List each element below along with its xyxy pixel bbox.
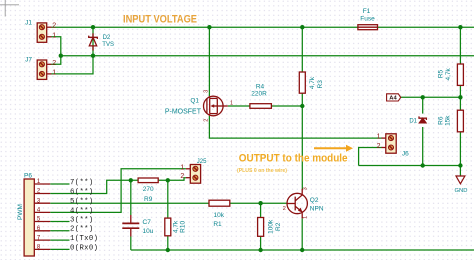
wire R4 to R3 bottom node [271, 105, 302, 107]
wire J7.1 [52, 56, 94, 74]
resistor R4 [250, 84, 272, 109]
wire D2 column [92, 27, 94, 56]
wire D1 column [422, 97, 424, 113]
resistor R10 [165, 218, 187, 236]
svg-text:D2: D2 [103, 35, 111, 41]
wire Q2 emitter [301, 218, 303, 250]
wire P6.1 stub [50, 183, 69, 185]
ground GND [455, 176, 468, 194]
svg-text:F1: F1 [363, 8, 371, 15]
svg-text:270: 270 [143, 186, 154, 193]
svg-text:GND: GND [455, 188, 468, 194]
svg-text:2: 2 [52, 60, 56, 67]
connector J6 [377, 134, 409, 158]
svg-text:R5: R5 [438, 69, 445, 78]
wire R3 column [301, 27, 303, 72]
wire P6.7 stub [50, 239, 69, 241]
resistor R9 [138, 178, 158, 203]
svg-text:1: 1 [302, 216, 308, 219]
wire A4 row [401, 96, 461, 98]
svg-text:J7: J7 [25, 57, 32, 64]
svg-text:10k: 10k [214, 212, 225, 219]
wire C7 column [130, 180, 132, 215]
wire P6.5 stub [50, 221, 69, 223]
svg-text:0(Rx0): 0(Rx0) [70, 244, 98, 252]
svg-text:(PLUS 0 on the wire): (PLUS 0 on the wire) [237, 168, 287, 174]
svg-text:R10: R10 [180, 221, 187, 233]
svg-text:220R: 220R [251, 91, 267, 98]
svg-text:3: 3 [302, 187, 308, 190]
diode D2 TVS [89, 33, 114, 50]
svg-text:R2: R2 [275, 222, 282, 231]
resistor R3 [299, 72, 324, 93]
svg-text:2: 2 [52, 23, 56, 30]
wire R6 bottom [459, 132, 461, 166]
wire P6.3 to R1 [50, 202, 209, 204]
svg-text:P-MOSFET: P-MOSFET [165, 108, 202, 115]
svg-text:J1: J1 [25, 19, 32, 26]
svg-text:1: 1 [180, 164, 184, 171]
svg-text:2: 2 [283, 206, 286, 212]
wire GND bottom rail [131, 249, 474, 251]
svg-text:4,7k: 4,7k [309, 76, 316, 89]
svg-text:10u: 10u [143, 228, 154, 235]
svg-text:J25: J25 [197, 159, 207, 165]
svg-text:2: 2 [377, 143, 381, 150]
svg-text:3: 3 [204, 90, 210, 93]
mosfet Q1 P-MOSFET [165, 90, 233, 122]
svg-text:PWM: PWM [17, 204, 24, 220]
svg-text:J6: J6 [402, 150, 409, 157]
svg-text:P6: P6 [24, 172, 32, 179]
svg-text:C7: C7 [143, 219, 152, 226]
svg-text:3(**): 3(**) [70, 216, 94, 224]
svg-text:R9: R9 [144, 196, 153, 203]
wire R3 bottom to Q2 collector [301, 93, 303, 189]
svg-text:1: 1 [377, 134, 381, 141]
svg-text:2: 2 [204, 119, 210, 122]
svg-text:OUTPUT to the module: OUTPUT to the module [239, 152, 348, 164]
svg-text:1(Tx0): 1(Tx0) [70, 235, 98, 243]
svg-text:INPUT VOLTAGE: INPUT VOLTAGE [123, 14, 197, 26]
connector J25 [180, 159, 207, 183]
connector J1 [25, 19, 56, 42]
arrow orange [314, 145, 353, 152]
svg-text:15k: 15k [444, 115, 451, 126]
wire VIN+ top rail [52, 26, 474, 28]
capacitor C7 [122, 215, 153, 237]
svg-text:NPN: NPN [310, 206, 324, 213]
wire VIN- second rail [61, 55, 474, 57]
svg-text:4,7k: 4,7k [445, 68, 452, 81]
wire J6.2 to GND row [359, 148, 382, 166]
wire R10 column [167, 180, 169, 218]
svg-text:Q1: Q1 [190, 98, 199, 105]
wire J1.1 / J7.2 column [52, 37, 61, 65]
resistor R5 [438, 64, 464, 85]
connector P6 [17, 172, 50, 256]
diode D1 zener [409, 116, 426, 124]
svg-text:Q2: Q2 [310, 197, 319, 204]
wire P6.2 to R9/C7 node [50, 180, 138, 193]
wire Q1 source column [208, 27, 210, 96]
svg-text:R4: R4 [256, 84, 265, 91]
wire GND stub [459, 166, 461, 177]
svg-text:2: 2 [180, 173, 184, 180]
svg-text:4(**): 4(**) [70, 207, 94, 215]
svg-text:100k: 100k [268, 219, 275, 234]
wire GND row [359, 165, 461, 167]
wire P6.8 stub [50, 248, 69, 250]
svg-text:A4: A4 [389, 96, 397, 102]
wire J25.1 to P6.4 [50, 169, 186, 213]
svg-text:Fuse: Fuse [360, 15, 375, 22]
wire Q1 gate to R4 [228, 105, 250, 107]
svg-text:6(**): 6(**) [70, 188, 94, 196]
wire R5 column [459, 27, 461, 64]
resistor R2 [258, 218, 282, 237]
wire R5 bottom to A4 node [459, 85, 461, 110]
svg-text:D1: D1 [409, 119, 417, 125]
svg-text:7(**): 7(**) [70, 179, 94, 187]
svg-text:R3: R3 [317, 80, 324, 89]
svg-text:R1: R1 [213, 221, 222, 228]
wire R2 column [260, 203, 262, 217]
svg-text:1: 1 [52, 32, 56, 39]
wire P6.6 stub [50, 230, 69, 232]
wire Q1 drain to J6.1 output [209, 116, 381, 138]
svg-text:5(**): 5(**) [70, 198, 94, 206]
svg-text:1: 1 [230, 101, 233, 107]
wire R1 to Q2 base [230, 202, 287, 204]
wire R9 right to J25.2 [158, 178, 186, 181]
resistor R1 [209, 200, 230, 228]
resistor R6 [438, 110, 464, 132]
svg-text:2(**): 2(**) [70, 226, 94, 234]
svg-text:1: 1 [52, 69, 56, 76]
sheet origin crosshair [0, 0, 19, 17]
label A4 [387, 94, 401, 102]
connector J7 [25, 57, 56, 80]
transistor Q2 NPN [283, 187, 324, 219]
svg-text:TVS: TVS [102, 42, 114, 48]
fuse F1 [358, 8, 378, 30]
